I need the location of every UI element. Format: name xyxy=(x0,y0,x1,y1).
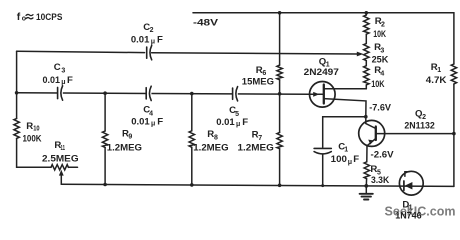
wire C2 feedback line xyxy=(17,51,145,52)
label fo = 10CPS xyxy=(17,11,26,23)
wire right edge vertical bottom xyxy=(453,84,455,186)
ground xyxy=(365,186,367,194)
svg-text:1: 1 xyxy=(344,146,348,153)
svg-text:μ: μ xyxy=(151,39,155,46)
watermark xyxy=(385,205,456,219)
Q2 base lead xyxy=(366,117,376,129)
svg-text:9: 9 xyxy=(128,134,132,141)
label -48V xyxy=(193,17,219,28)
svg-text:μ: μ xyxy=(151,121,155,128)
node top rail / R6 line junction xyxy=(278,11,282,15)
svg-text:F: F xyxy=(157,116,163,127)
node Q2 collector / right edge xyxy=(452,132,456,136)
wire -48V top rail xyxy=(193,12,454,14)
resistor R10 100K xyxy=(14,119,19,139)
svg-text:2: 2 xyxy=(381,22,385,29)
node R6 R7 junction xyxy=(278,92,282,96)
wire Q1 source to Q2 base node xyxy=(324,99,366,117)
svg-text:100K: 100K xyxy=(23,133,42,144)
resistor R9 1.2MEG xyxy=(104,93,106,131)
transistor Q1 2N2497 xyxy=(310,82,336,108)
svg-text:10K: 10K xyxy=(371,79,384,90)
svg-text:2N2497: 2N2497 xyxy=(304,67,339,78)
svg-text:o: o xyxy=(22,16,26,23)
wire right edge vertical top xyxy=(453,13,455,64)
capacitor C2 0.01uF xyxy=(146,47,148,58)
svg-text:2: 2 xyxy=(150,27,154,34)
node -7.6V junction xyxy=(364,115,368,119)
wire left rail vertical xyxy=(16,51,18,118)
svg-text:F: F xyxy=(242,117,248,128)
svg-text:2.5MEG: 2.5MEG xyxy=(42,153,79,164)
capacitor C4 0.01uF xyxy=(146,88,151,98)
transistor Q2 2N1132 xyxy=(359,120,385,146)
resistor R11 2.5MEG (horizontal) xyxy=(51,165,68,170)
svg-text:0.01: 0.01 xyxy=(43,75,61,86)
svg-text:15MEG: 15MEG xyxy=(242,76,274,87)
node R7 bottom xyxy=(278,184,282,188)
svg-text:11: 11 xyxy=(61,145,66,152)
svg-text:10K: 10K xyxy=(373,29,386,40)
svg-text:3: 3 xyxy=(61,68,65,75)
wiper arrow of R11 xyxy=(59,170,64,176)
svg-text:2N1132: 2N1132 xyxy=(404,121,434,132)
wire R11 right lead xyxy=(68,166,77,168)
svg-text:C: C xyxy=(54,62,61,73)
node R9 bottom xyxy=(103,183,107,187)
svg-text:0.01: 0.01 xyxy=(216,117,235,128)
svg-text:F: F xyxy=(353,154,359,165)
svg-text:7: 7 xyxy=(258,135,262,142)
svg-text:10: 10 xyxy=(33,126,39,133)
diode D1 1N746 zener xyxy=(399,171,423,195)
svg-text:μ: μ xyxy=(348,159,352,166)
wiper arrow into R3 xyxy=(357,52,364,57)
node C3 left / left rail xyxy=(15,91,19,95)
resistor R3 25K xyxy=(364,44,369,61)
svg-text:f: f xyxy=(17,11,21,23)
svg-text:3.3K: 3.3K xyxy=(371,175,389,186)
svg-text:-7.6V: -7.6V xyxy=(369,103,391,114)
node ground junction xyxy=(364,184,368,188)
svg-text:100: 100 xyxy=(331,154,347,165)
node top rail / R2 chain junction xyxy=(365,11,369,15)
Q1 channel bar xyxy=(323,85,325,104)
capacitor C3 0.01uF xyxy=(57,88,62,98)
wire RC ladder signal line xyxy=(17,93,310,95)
wire Q1 drain to chain xyxy=(324,88,367,90)
resistor R1 4.7K xyxy=(451,64,456,84)
svg-text:5: 5 xyxy=(235,111,239,118)
node R8 bottom xyxy=(190,183,194,187)
svg-text:1.2MEG: 1.2MEG xyxy=(238,142,274,153)
wire R6/R7 vertical xyxy=(279,13,281,65)
resistor R5 3.3K xyxy=(364,162,369,179)
resistor R4 10K xyxy=(364,66,369,85)
Q2 emitter with arrow xyxy=(367,139,376,146)
svg-text:μ: μ xyxy=(61,79,65,86)
capacitor C1 100uF xyxy=(314,147,331,149)
svg-text:10CPS: 10CPS xyxy=(36,12,63,23)
Q1 gate arrow xyxy=(310,93,323,95)
node R9 top xyxy=(103,91,107,95)
resistor R7 1.2MEG xyxy=(277,132,282,148)
Q2 base bar xyxy=(375,127,377,141)
svg-text:0.01: 0.01 xyxy=(131,116,150,127)
svg-text:1: 1 xyxy=(437,67,441,74)
svg-text:0.01: 0.01 xyxy=(131,34,150,45)
svg-text:F: F xyxy=(157,34,163,45)
node R8 top xyxy=(190,92,194,96)
resistor R6 15MEG xyxy=(277,65,282,80)
wire left rail lower xyxy=(17,138,51,167)
capacitor C5 0.01uF xyxy=(232,89,237,99)
wire ground bottom rail xyxy=(61,184,454,186)
resistor R8 1.2MEG xyxy=(191,94,193,131)
node C1 bottom xyxy=(321,184,324,187)
resistor chain R2 10K xyxy=(365,13,367,15)
svg-text:8: 8 xyxy=(214,134,218,141)
svg-text:-48V: -48V xyxy=(193,17,219,28)
svg-text:4: 4 xyxy=(380,70,384,77)
Q2 collector wire xyxy=(376,133,454,135)
svg-text:3: 3 xyxy=(380,47,384,54)
wire C1 top lead xyxy=(323,117,366,148)
svg-text:1N746: 1N746 xyxy=(395,211,422,222)
svg-text:1.2MEG: 1.2MEG xyxy=(107,142,142,153)
svg-text:-2.6V: -2.6V xyxy=(371,150,395,161)
svg-text:1.2MEG: 1.2MEG xyxy=(193,142,228,153)
svg-text:F: F xyxy=(67,75,73,86)
svg-text:μ: μ xyxy=(236,121,240,128)
svg-text:4.7K: 4.7K xyxy=(426,75,447,86)
